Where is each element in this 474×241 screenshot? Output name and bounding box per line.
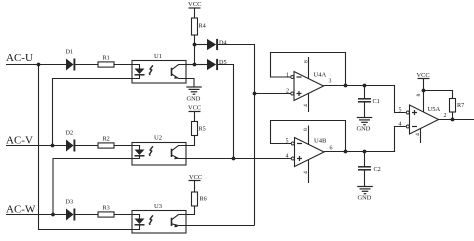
wire R7 to output xyxy=(452,112,454,120)
svg-text:2: 2 xyxy=(286,89,289,95)
svg-text:8: 8 xyxy=(416,94,422,97)
op-amp U4A xyxy=(294,72,324,101)
svg-text:R2: R2 xyxy=(103,136,110,143)
svg-text:6: 6 xyxy=(330,146,333,152)
wire R4 down xyxy=(194,35,196,65)
resistor R4 xyxy=(192,18,198,35)
junction U4A output C1 xyxy=(363,84,367,88)
svg-text:R3: R3 xyxy=(103,205,110,212)
junction U1 collector / D5 xyxy=(193,63,197,67)
svg-text:4: 4 xyxy=(415,133,421,136)
junction R4-D4 xyxy=(193,43,197,47)
pin 8 stub U4B xyxy=(308,126,310,146)
wire D1 to R1 xyxy=(75,64,98,66)
wire U5A output xyxy=(439,119,474,121)
wire AC-U input xyxy=(6,64,66,66)
junction D4 column / U4A pin 2 branch xyxy=(253,92,257,96)
wire to D5 xyxy=(195,64,208,66)
resistor R3 xyxy=(98,212,114,217)
svg-text:C2: C2 xyxy=(374,166,381,173)
wire U4A feedback loop xyxy=(271,53,346,86)
svg-text:U5A: U5A xyxy=(428,106,441,113)
svg-text:R6: R6 xyxy=(200,196,207,203)
wire U4A output xyxy=(324,86,406,113)
svg-text:5: 5 xyxy=(286,139,289,145)
svg-text:R7: R7 xyxy=(457,102,464,109)
svg-text:D1: D1 xyxy=(66,49,74,56)
diode D2 xyxy=(66,140,74,152)
op-amp U5A xyxy=(410,105,439,134)
wire R6 to U3 collector xyxy=(186,206,195,215)
svg-text:AC-W: AC-W xyxy=(6,204,36,216)
svg-text:2: 2 xyxy=(444,113,447,119)
svg-text:8: 8 xyxy=(304,60,310,63)
wire AC-W input xyxy=(6,214,66,216)
capacitor C2 xyxy=(364,152,366,167)
wire U2 return to AC-W xyxy=(53,159,132,215)
wire R1 to U1 xyxy=(114,64,132,66)
pin 4 power stub U5A xyxy=(420,129,422,144)
pin 4 stub U4A xyxy=(308,94,310,113)
junction U4B output C2 xyxy=(363,150,367,154)
wire D4 to U4A input column xyxy=(218,45,255,226)
svg-text:8: 8 xyxy=(303,128,309,131)
svg-text:R4: R4 xyxy=(199,23,206,30)
svg-text:4: 4 xyxy=(303,104,309,107)
junction U2-return on AC-W xyxy=(51,213,55,217)
wire R2 to U2 xyxy=(114,145,132,147)
svg-text:U4A: U4A xyxy=(314,72,327,79)
svg-text:U1: U1 xyxy=(154,53,162,60)
diode D4 xyxy=(207,39,216,50)
svg-text:5: 5 xyxy=(399,108,402,114)
svg-text:1: 1 xyxy=(286,73,289,79)
pin 8 stub U4A xyxy=(308,57,310,79)
svg-text:D2: D2 xyxy=(66,130,74,137)
junction D5 column on pin4 net xyxy=(232,157,236,161)
resistor R5 xyxy=(192,122,198,136)
svg-text:4: 4 xyxy=(303,171,309,174)
optocoupler U1 xyxy=(132,61,186,84)
wire U4B output xyxy=(324,127,406,152)
wire U2 emitter to U4B pin 4 xyxy=(186,158,292,160)
wire VCC to R7 xyxy=(424,91,453,99)
svg-text:GND: GND xyxy=(358,195,372,202)
svg-text:GND: GND xyxy=(357,126,371,133)
pin 4 power stub U4B xyxy=(308,160,310,184)
junction AC-U xyxy=(37,63,41,67)
resistor R2 xyxy=(98,143,114,148)
svg-text:D4: D4 xyxy=(219,40,227,47)
wire R3 to U3 xyxy=(114,214,132,216)
wire D3 to R3 xyxy=(75,214,98,216)
svg-text:VCC: VCC xyxy=(188,1,202,8)
diode D3 xyxy=(66,209,74,221)
wire U4A pin 2 input xyxy=(255,93,293,95)
svg-text:U4B: U4B xyxy=(314,138,327,145)
wire to D4 xyxy=(195,44,208,46)
op-amp U4B xyxy=(295,138,325,167)
wire AC-U to U3 return rail xyxy=(39,65,133,230)
resistor R1 xyxy=(98,62,114,67)
junction R7 output xyxy=(451,118,455,122)
svg-text:U3: U3 xyxy=(154,203,163,210)
wire U1 collector xyxy=(186,64,195,66)
svg-text:3: 3 xyxy=(329,79,332,85)
svg-text:U2: U2 xyxy=(154,135,162,142)
svg-text:4: 4 xyxy=(286,154,289,160)
svg-text:R5: R5 xyxy=(199,126,206,133)
optocoupler U3 xyxy=(132,211,186,234)
svg-text:4: 4 xyxy=(399,122,402,128)
ground below C2 xyxy=(357,186,373,188)
diode D5 xyxy=(207,59,216,70)
optocoupler U2 xyxy=(132,143,186,166)
svg-text:D3: D3 xyxy=(66,199,74,206)
wire D2 to R2 xyxy=(75,145,98,147)
wire D5 to U4B input column xyxy=(218,65,234,159)
ground below U1 xyxy=(186,86,202,88)
junction U1-return on AC-V xyxy=(51,144,55,148)
svg-text:GND: GND xyxy=(187,96,201,103)
svg-text:AC-V: AC-V xyxy=(6,134,33,146)
junction U4B output feedback xyxy=(344,150,348,154)
wire AC-V input xyxy=(6,145,66,147)
resistor R7 xyxy=(450,99,456,113)
wire U1 return to AC-V xyxy=(53,79,133,146)
wire U1 emitter to ground xyxy=(186,79,194,88)
wire U3 emitter to D4 column xyxy=(186,225,255,227)
ground below C1 xyxy=(357,117,373,119)
svg-text:R1: R1 xyxy=(103,55,110,62)
wire R5 to U2 collector xyxy=(186,136,195,146)
diode D1 xyxy=(66,59,74,71)
junction U4A output feedback xyxy=(344,84,348,88)
capacitor C1 xyxy=(364,86,366,99)
resistor R6 xyxy=(192,192,198,206)
svg-text:AC-U: AC-U xyxy=(6,52,33,64)
wire U4B feedback loop xyxy=(271,121,346,152)
junction VCC R7 branch xyxy=(422,89,426,93)
svg-text:VCC: VCC xyxy=(188,105,201,112)
svg-text:C1: C1 xyxy=(373,98,380,105)
